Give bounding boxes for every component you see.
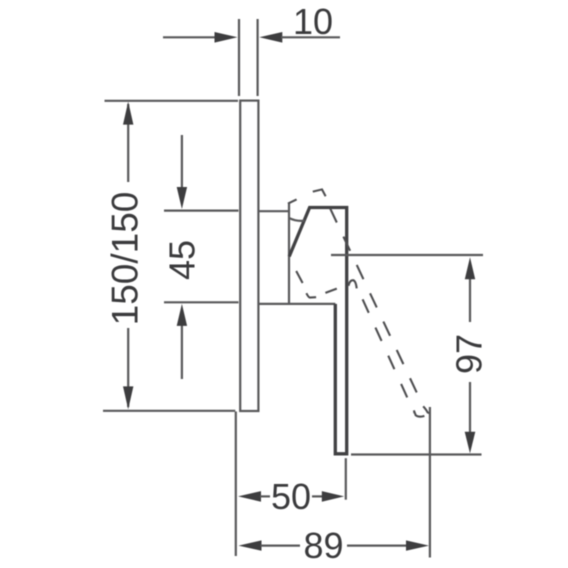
dim 45 down arrowhead [177, 187, 187, 209]
extension line bottom of 97 [351, 453, 482, 455]
dashed handle left edge lower dash [296, 271, 302, 283]
dashed handle bottom-left corner dash [306, 293, 316, 297]
extension line bottom of 45 [164, 301, 239, 303]
extension line left of 50 and 89 [235, 412, 237, 557]
dashed handle top corner [313, 189, 326, 196]
dim 10 left shaft [163, 36, 216, 38]
dim 150/150 lower shaft [127, 328, 129, 407]
dim 10 right arrowhead [259, 32, 282, 43]
svg-text:50: 50 [271, 476, 311, 517]
svg-text:45: 45 [162, 240, 203, 280]
valve body top edge [258, 210, 289, 212]
extension line right of dim 10 [257, 19, 259, 96]
dashed handle bend hook [349, 280, 357, 288]
dashed handle right edge [330, 208, 423, 405]
dim 45 lower shaft [181, 323, 183, 379]
dim 45 up arrowhead [177, 304, 187, 326]
dim 45 upper shaft [181, 135, 183, 190]
dashed handle top-left dash [288, 199, 297, 203]
dim 97 upper shaft [469, 277, 471, 322]
wall plate [240, 101, 258, 411]
dim 97 up arrowhead [465, 257, 475, 279]
dim 50 left shaft [260, 495, 270, 497]
dim 50 left arrowhead [238, 491, 261, 502]
rotation arc [289, 218, 305, 221]
dim 97 down arrowhead [465, 432, 476, 454]
extension line right of 50 [345, 458, 347, 500]
dim 89 left arrowhead [239, 540, 262, 550]
dashed handle bottom edge dash [325, 289, 336, 293]
dim 150/150 upper shaft [127, 104, 129, 182]
dashed handle tip right [423, 406, 429, 413]
dim 89 right arrowhead [406, 540, 429, 550]
dim 50 right shaft [312, 495, 323, 497]
dim 89 left shaft [261, 544, 301, 546]
svg-text:89: 89 [303, 525, 343, 566]
extension line top of 97 [331, 254, 483, 256]
extension line top of 150/150 [105, 100, 239, 102]
svg-text:150/150: 150/150 [105, 192, 146, 326]
extension line right of 89 [429, 407, 431, 558]
valve body bottom edge [258, 303, 335, 305]
extension line left of dim 10 [238, 19, 240, 96]
dim 97 lower shaft [469, 382, 471, 434]
dim 150/150 up arrowhead [123, 102, 133, 125]
dim 89 right shaft [347, 544, 408, 546]
dim 10 left arrowhead [215, 32, 238, 43]
dashed handle tip bottom-left [414, 410, 425, 416]
svg-text:10: 10 [293, 1, 333, 42]
dim 10 right shaft [281, 36, 340, 38]
extension line top of 45 [164, 210, 239, 212]
handle outline solid [289, 208, 347, 454]
valve body right edge [288, 203, 290, 304]
svg-text:97: 97 [449, 334, 490, 374]
dim 150/150 down arrowhead [123, 386, 133, 409]
dashed handle left edge [363, 299, 415, 413]
dim 50 right arrowhead [322, 491, 344, 502]
extension line bottom of 150/150 [103, 410, 235, 412]
